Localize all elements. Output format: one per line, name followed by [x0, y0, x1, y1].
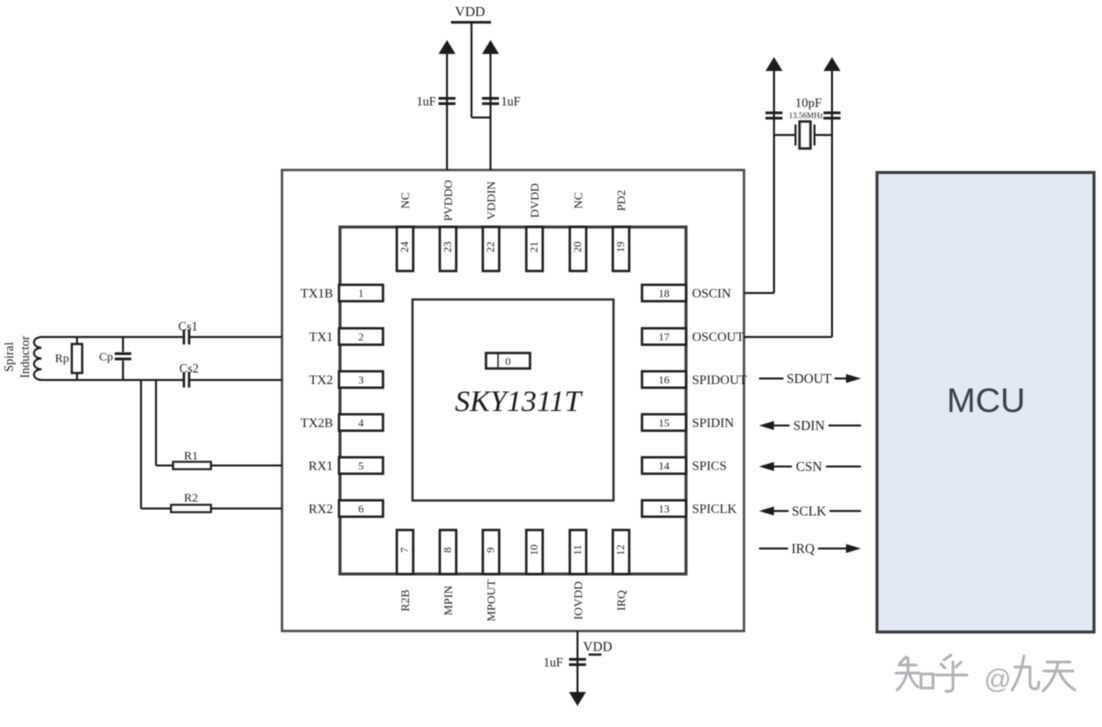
svg-text:1uF: 1uF — [501, 95, 521, 109]
pin 13 — [642, 500, 686, 516]
resistor R1 — [173, 449, 211, 470]
svg-text:4: 4 — [358, 417, 364, 429]
net IRQ — [759, 541, 861, 556]
pin 8 — [440, 530, 456, 574]
net SDOUT — [759, 371, 861, 386]
pin 21 — [526, 227, 542, 271]
svg-text:R2B: R2B — [398, 589, 412, 611]
svg-text:SPIDOUT: SPIDOUT — [692, 372, 747, 387]
svg-text:13.56MHz: 13.56MHz — [789, 111, 824, 120]
pin 4 — [339, 414, 383, 430]
svg-text:MCU: MCU — [947, 382, 1026, 420]
pin label NC (pin 20) — [571, 192, 585, 209]
resistor Rp — [55, 337, 82, 380]
wire PVDDO branch — [446, 53, 448, 170]
pin label DVDD (pin 21) — [528, 183, 542, 218]
IC part label SKY1311T — [455, 385, 583, 418]
pin 2 — [339, 328, 383, 344]
pin 23 — [440, 227, 456, 271]
svg-text:PVDDO: PVDDO — [441, 180, 455, 222]
svg-text:TX2: TX2 — [309, 372, 333, 387]
svg-text:PD2: PD2 — [614, 190, 628, 211]
pin 6 — [339, 500, 383, 516]
svg-text:Cs2: Cs2 — [179, 362, 198, 376]
svg-text:Spiral: Spiral — [2, 342, 16, 372]
pin 9 — [483, 530, 499, 574]
wire antenna bottom node — [40, 379, 183, 381]
pin 12 — [613, 530, 629, 574]
MCU block — [877, 173, 1094, 633]
power rail VDD (top) — [451, 5, 491, 24]
svg-text:22: 22 — [485, 242, 497, 253]
svg-text:Cp: Cp — [99, 350, 113, 364]
pin label NC (pin 24) — [398, 192, 412, 209]
svg-text:Cs1: Cs1 — [178, 320, 197, 334]
svg-text:Rp: Rp — [55, 351, 69, 365]
svg-text:SKY1311T: SKY1311T — [455, 385, 583, 418]
svg-text:6: 6 — [358, 503, 364, 515]
net SDIN — [759, 418, 861, 433]
svg-text:24: 24 — [399, 241, 411, 253]
pin 17 — [642, 328, 686, 344]
IC U1 pin ring — [340, 227, 686, 574]
svg-text:SPICS: SPICS — [692, 458, 727, 473]
svg-text:12: 12 — [615, 545, 627, 556]
pin 15 — [642, 414, 686, 430]
power arrow (PVDDO branch) — [439, 40, 456, 54]
power arrow (OSCIN branch) — [766, 57, 783, 71]
svg-text:@: @ — [984, 664, 1011, 694]
svg-text:5: 5 — [358, 460, 364, 472]
power arrow (VDDIN branch) — [482, 40, 499, 54]
pin label RX1 — [308, 458, 333, 473]
svg-text:SPIDIN: SPIDIN — [692, 415, 735, 430]
pin label SPIDIN — [692, 415, 735, 430]
svg-text:R1: R1 — [184, 449, 198, 463]
svg-text:RX2: RX2 — [308, 501, 333, 516]
svg-text:7: 7 — [399, 547, 411, 553]
svg-text:14: 14 — [659, 460, 671, 472]
svg-text:CSN: CSN — [796, 459, 823, 474]
svg-text:IOVDD: IOVDD — [571, 581, 585, 620]
svg-text:2: 2 — [358, 331, 364, 343]
svg-text:VDDIN: VDDIN — [484, 181, 498, 220]
svg-text:17: 17 — [659, 331, 671, 343]
antenna label Spiral Inductor — [2, 335, 32, 378]
pin 20 — [570, 227, 586, 271]
svg-text:TX1: TX1 — [309, 329, 333, 344]
capacitor 1uF (VDDIN) — [482, 95, 521, 109]
svg-text:1: 1 — [358, 288, 364, 300]
capacitor Cs1 — [178, 320, 197, 345]
wire VDDIN branch — [490, 53, 492, 170]
net SCLK — [759, 504, 861, 519]
pin 7 — [397, 530, 413, 574]
pin label SPICLK — [692, 501, 737, 516]
svg-text:OSCIN: OSCIN — [692, 285, 732, 300]
pin label TX1 — [309, 329, 333, 344]
pin label TX2 — [309, 372, 333, 387]
pin 22 — [483, 227, 499, 271]
svg-text:IRQ: IRQ — [791, 541, 815, 556]
pin 1 — [339, 285, 383, 301]
svg-text:SDIN: SDIN — [793, 418, 825, 433]
wire antenna top node — [40, 336, 183, 338]
wire Cs1 to TX1 — [190, 336, 282, 338]
wire R2 to RX2 — [211, 508, 282, 510]
svg-text:18: 18 — [659, 288, 671, 300]
capacitor 1uF (PVDDO) — [417, 95, 456, 109]
svg-text:SPICLK: SPICLK — [692, 501, 737, 516]
wire OSCIN to crystal — [744, 70, 774, 293]
svg-text:Inductor: Inductor — [18, 335, 32, 378]
svg-text:16: 16 — [659, 374, 671, 386]
pin 24 — [397, 227, 413, 271]
svg-text:0: 0 — [505, 356, 511, 368]
svg-text:TX2B: TX2B — [301, 415, 334, 430]
pin 16 — [642, 371, 686, 387]
svg-text:IRQ: IRQ — [614, 590, 628, 611]
pin 0 exposed pad — [486, 353, 530, 369]
wire OSCOUT to crystal — [744, 70, 832, 337]
svg-text:10pF: 10pF — [795, 95, 822, 110]
wire tap to R2 — [141, 380, 171, 509]
svg-text:20: 20 — [572, 241, 584, 253]
svg-text:11: 11 — [572, 545, 584, 556]
wire crystal link — [774, 134, 832, 136]
svg-text:SDOUT: SDOUT — [786, 371, 832, 386]
svg-text:DVDD: DVDD — [528, 183, 542, 218]
pin 5 — [339, 457, 383, 473]
capacitor Cp — [99, 337, 131, 380]
pin label SPICS — [692, 458, 727, 473]
pin label TX2B — [301, 415, 334, 430]
pin label TX1B — [301, 285, 334, 300]
svg-text:VDD: VDD — [583, 639, 612, 654]
pin 3 — [339, 371, 383, 387]
pin label R2B (pin 7) — [398, 589, 412, 611]
svg-text:OSCOUT: OSCOUT — [692, 329, 744, 344]
pin label PVDDO (pin 23) — [441, 180, 455, 222]
pin label MPOUT (pin 9) — [484, 579, 498, 622]
pin 14 — [642, 457, 686, 473]
svg-text:10: 10 — [529, 544, 541, 556]
wire VDD rail to VDDIN branch — [472, 24, 491, 118]
svg-text:19: 19 — [615, 241, 627, 253]
svg-text:15: 15 — [659, 417, 671, 429]
net CSN — [759, 459, 861, 474]
crystal Y1 — [796, 122, 815, 149]
svg-text:13: 13 — [659, 503, 671, 515]
resistor R2 — [171, 491, 211, 513]
net label VDD (bottom) — [583, 639, 612, 656]
pin label VDDIN (pin 22) — [484, 181, 498, 220]
svg-text:3: 3 — [358, 374, 364, 386]
svg-text:9: 9 — [485, 547, 497, 553]
svg-text:1uF: 1uF — [417, 95, 437, 109]
wire Cs2 to TX2 — [190, 379, 282, 381]
pin label OSCIN — [692, 285, 732, 300]
pin 10 — [526, 530, 542, 574]
capacitor 10pF (OSCIN) — [766, 112, 783, 120]
svg-text:MPOUT: MPOUT — [484, 579, 498, 622]
MCU label — [947, 382, 1026, 420]
capacitor Cs2 — [179, 362, 198, 388]
svg-text:RX1: RX1 — [308, 458, 333, 473]
capacitor 10pF (OSCOUT) — [824, 112, 841, 120]
pin 19 — [613, 227, 629, 271]
IC U1 die outline — [413, 300, 614, 501]
svg-text:NC: NC — [398, 192, 412, 209]
svg-text:8: 8 — [442, 547, 454, 553]
power arrow (OSCOUT branch) — [824, 57, 841, 71]
pin label SPIDOUT — [692, 372, 747, 387]
pin 18 — [642, 285, 686, 301]
pin 11 — [570, 530, 586, 574]
pin label OSCOUT — [692, 329, 744, 344]
svg-text:23: 23 — [442, 241, 454, 253]
pin label IOVDD (pin 11) — [571, 581, 585, 620]
svg-text:R2: R2 — [184, 491, 198, 505]
inductor L1 spiral coil — [34, 337, 41, 380]
svg-text:1uF: 1uF — [544, 656, 564, 670]
pin label PD2 (pin 19) — [614, 190, 628, 211]
pin label MPIN (pin 8) — [441, 585, 455, 615]
svg-text:21: 21 — [529, 242, 541, 253]
wire tap to R1 — [156, 380, 173, 466]
value label 10pF 13.56MHz — [789, 95, 824, 120]
svg-text:SCLK: SCLK — [792, 504, 827, 519]
wire IOVDD to VDD (bottom) — [577, 631, 579, 692]
svg-text:VDD: VDD — [455, 5, 485, 20]
pin label IRQ (pin 12) — [614, 590, 628, 611]
pin label RX2 — [308, 501, 333, 516]
svg-text:MPIN: MPIN — [441, 585, 455, 615]
IC U1 SKY1311T package outline — [282, 170, 744, 631]
capacitor 1uF (IOVDD) — [544, 656, 586, 670]
watermark zhihu @jiutian — [896, 655, 967, 691]
svg-text:TX1B: TX1B — [301, 285, 334, 300]
svg-text:NC: NC — [571, 192, 585, 209]
power arrow down (bottom) — [569, 692, 586, 706]
wire R1 to RX1 — [211, 465, 282, 467]
